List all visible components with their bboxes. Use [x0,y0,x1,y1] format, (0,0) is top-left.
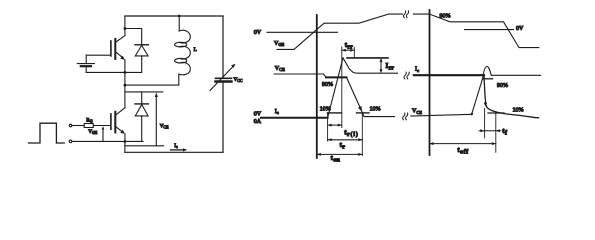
svg-text:0A: 0A [254,119,262,125]
lower IGBT Q2 emitter lead [116,126,123,132]
svg-text:90%: 90% [440,13,451,19]
waveform VCE fall [347,77,395,116]
lower IGBT Q2 collector lead [116,108,125,115]
upper IGBT Q1 gate wire [87,54,111,56]
bottom rail [125,151,223,153]
svg-text:VGE: VGE [274,41,285,47]
svg-text:Ic: Ic [415,67,419,73]
svg-text:ton: ton [331,154,341,164]
svg-text:tr: tr [340,141,346,151]
axis break (gate row) [403,11,408,18]
wire RG to gate of Q2 [93,125,110,127]
wire return (lower) [72,140,143,142]
svg-text:0V: 0V [254,30,262,36]
time marker t1 [316,15,318,158]
0V reference line (gate row) [267,31,338,33]
wire lower diode top branch [125,91,163,93]
svg-text:10%: 10% [320,107,331,113]
svg-text:10%: 10% [370,107,381,113]
svg-text:10%: 10% [513,108,524,114]
waveform VCE rise and overshoot [472,67,541,115]
wire midpoint down to Q2 collector [124,85,126,108]
dimension ton [317,153,363,155]
waveform VCE high (turn-on) [274,74,326,77]
svg-text:VGE: VGE [88,129,98,135]
svg-text:VCE: VCE [412,109,422,115]
pulse generator source [29,123,65,143]
svg-text:0V: 0V [516,26,524,32]
svg-text:VCC: VCC [234,77,243,83]
terminal (gate input, upper) [69,124,72,127]
svg-text:RG: RG [86,117,92,123]
svg-text:VCE: VCE [160,123,169,129]
node emitter Q1 / diode D1 / battery [124,71,127,74]
wire VCE bottom connector [125,145,164,147]
axis break (baseline row) [403,113,408,120]
trr dimension [342,49,355,51]
wire midpoint to inductor [125,84,179,86]
waveform Ic fall and tail [484,75,539,118]
upper IGBT Q1 collector lead [116,16,125,42]
time marker t2 [429,10,431,155]
dimension tf [484,130,496,132]
battery gate bias supply [85,55,87,62]
0V reference line (turn-off) [465,29,514,31]
wire gate input to RG [72,125,84,127]
top rail [125,15,223,17]
dimension tr [328,139,363,141]
freewheel diode D1 (upper) [125,29,142,45]
upper IGBT Q1 body bar [114,39,116,59]
svg-text:Ic: Ic [275,109,279,115]
right branch wires [222,16,224,152]
arrowhead on VCE fall [358,106,362,112]
node collector branch Q1 [124,27,127,30]
svg-text:Irr: Irr [386,62,395,72]
svg-text:0V: 0V [254,111,262,117]
svg-text:tf: tf [502,127,507,137]
waveform VCE low (turn-off) [411,114,472,116]
waveform Ic high (turn-off) [414,74,484,76]
node midpoint [124,84,127,87]
svg-text:90%: 90% [322,82,333,88]
droplines turn-on [327,113,329,141]
10% tick right [357,112,370,114]
wire battery return to emitter node [86,71,125,73]
inductor L [178,16,180,31]
droplines turn-off [484,109,486,138]
svg-text:90%: 90% [497,83,508,89]
waveform Ic peak decay and plateau [343,58,398,73]
capacitor / source Vcc [216,77,232,79]
VCE 90% segment [326,76,347,78]
upper IGBT Q1 gate bar [110,41,112,56]
90% tick (turn-off) [483,78,493,80]
lower IGBT Q2 gate bar [110,114,112,129]
freewheel diode D2 (lower) [141,92,143,104]
svg-text:L: L [194,47,197,53]
dimension toff [430,143,496,145]
Irr dimension arrow [380,60,382,72]
node emitter Q2 / return wire [124,140,127,143]
waveform Ic rise [328,58,343,118]
svg-text:VCE: VCE [275,66,285,72]
resistor RG [84,124,93,128]
svg-text:Ic: Ic [174,143,178,149]
axis break (Ic plateau row) [404,72,409,79]
node top rail to inductor [178,15,181,18]
zero baseline (turn-on) [261,117,328,119]
terminal (gate return, lower) [69,140,72,143]
trr ticks [341,47,343,128]
dimension tr(i) [328,124,342,126]
upper IGBT Q1 emitter lead [116,52,124,58]
10% tick left [327,112,341,114]
arrowhead on Ic fall [484,102,487,107]
waveform VGE (turn-on) [277,14,403,49]
waveform VGE (turn-off) [430,14,539,48]
measurement arrow VCE (circuit) [155,97,157,146]
lower IGBT Q2 body bar [114,112,116,133]
svg-text:toff: toff [457,146,468,156]
10% tick (turn-off) [488,112,504,114]
svg-text:tr(i): tr(i) [344,128,359,138]
peak level line [347,57,388,59]
svg-text:trr: trr [345,41,353,51]
arrowhead on VCE rise [471,113,473,115]
